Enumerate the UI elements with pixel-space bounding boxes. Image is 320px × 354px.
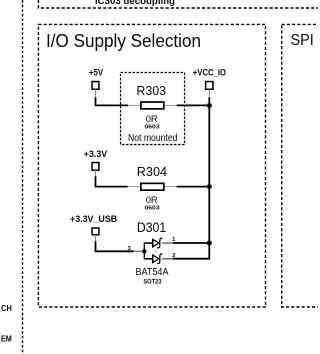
svg-text:0603: 0603 — [145, 206, 160, 212]
svg-text:R303: R303 — [136, 83, 166, 98]
D301 top diode triangle — [153, 239, 159, 247]
power port +5V connector square — [92, 82, 99, 90]
D301 top diode schottky cathode — [157, 238, 162, 248]
wire +3.3V to R304 — [96, 176, 128, 186]
svg-text:_EM: _EM — [0, 334, 12, 344]
D301 bottom diode anode lead — [144, 258, 152, 260]
D301 top diode anode bar — [152, 239, 154, 247]
svg-text:I/O Supply Selection: I/O Supply Selection — [46, 31, 201, 51]
power port +3.3V pin stub — [95, 170, 97, 176]
svg-text:D301: D301 — [137, 220, 166, 235]
D301 top diode anode lead — [144, 242, 152, 244]
wire D301 pin1 to rail — [173, 242, 209, 244]
svg-text:+3.3V_USB: +3.3V_USB — [70, 214, 118, 224]
D301 bottom diode schottky cathode — [157, 254, 162, 264]
junction rail/D301 pin1 — [207, 241, 212, 246]
junction D301 pin3/link — [142, 249, 146, 253]
power port +5V pin stub — [95, 89, 97, 97]
svg-text:SOT23: SOT23 — [143, 279, 161, 286]
svg-text:0603: 0603 — [145, 125, 160, 131]
wire +5V to R303 — [96, 97, 129, 105]
junction rail/R304 — [207, 184, 212, 189]
resistor R304 left pin — [128, 186, 141, 188]
svg-text:0R: 0R — [146, 114, 158, 125]
D301 bottom diode triangle — [153, 255, 159, 263]
svg-text:Not mounted: Not mounted — [128, 133, 178, 144]
wire R304 to +VCC_IO rail — [177, 186, 210, 188]
D301 common-anode link — [143, 242, 145, 259]
resistor R304 right pin — [165, 186, 177, 188]
resistor R304 body — [141, 183, 164, 190]
junction rail/R303 — [207, 103, 212, 108]
I/O Supply Selection box — [38, 24, 265, 307]
svg-text:+5V: +5V — [89, 68, 103, 78]
svg-text:_CH: _CH — [0, 303, 12, 313]
power port +3.3V_USB pin stub — [95, 235, 97, 242]
IC303 decoupling box (cut off at top) — [38, 0, 318, 8]
power port +3.3V_USB connector square — [92, 228, 99, 235]
power port +3.3V connector square — [92, 163, 99, 171]
resistor R303 left pin — [128, 104, 141, 106]
svg-text:BAT54A: BAT54A — [136, 267, 169, 278]
wire +3.3V_USB to D301 pin3 — [96, 241, 134, 251]
svg-text:+3.3V: +3.3V — [84, 149, 107, 159]
wire R303 to +VCC_IO rail — [177, 104, 210, 106]
power port +VCC_IO pin stub — [208, 89, 210, 97]
wire +VCC_IO rail — [173, 98, 209, 259]
D301 pin 3 stub — [134, 250, 145, 252]
power port +VCC_IO connector square — [206, 82, 213, 90]
resistor R303 body — [141, 102, 164, 109]
svg-text:0R: 0R — [146, 195, 158, 206]
svg-text:R304: R304 — [137, 164, 167, 179]
svg-text:+VCC_IO: +VCC_IO — [193, 68, 226, 78]
svg-text:2: 2 — [172, 253, 175, 259]
left sheet boundary dashed line — [22, 0, 24, 354]
D301 bottom diode anode bar — [152, 255, 154, 263]
D301 hidden designator mark — [155, 250, 157, 252]
svg-text:IC303 decoupling: IC303 decoupling — [95, 0, 175, 6]
SPI box (cut off at right) — [282, 24, 320, 307]
R303 not-mounted dashed box — [121, 73, 185, 145]
D301 pin 1 stub — [162, 242, 173, 244]
svg-text:SPI: SPI — [291, 32, 314, 49]
D301 pin 2 stub — [162, 258, 173, 260]
resistor R303 right pin — [165, 104, 177, 106]
